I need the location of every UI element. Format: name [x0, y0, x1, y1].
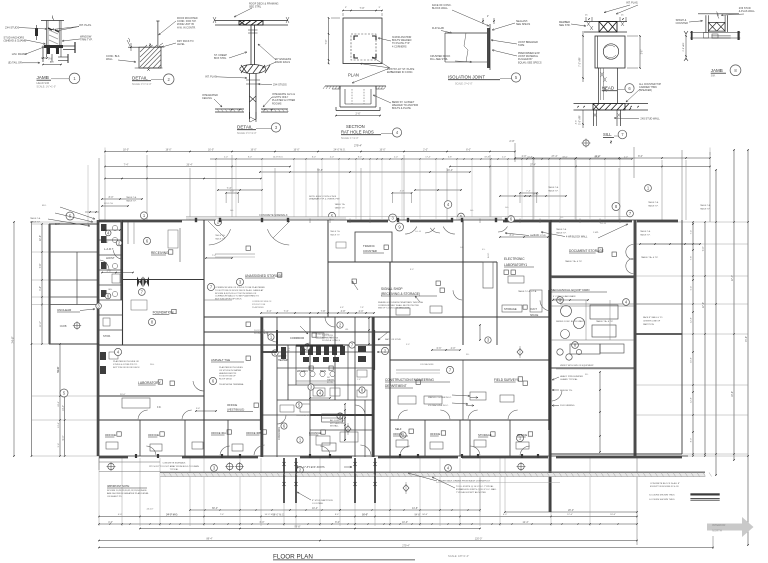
svg-text:7'-4": 7'-4"	[284, 310, 289, 313]
svg-text:89'-4": 89'-4"	[206, 538, 212, 541]
svg-text:OFFICE: OFFICE	[105, 433, 116, 437]
signal shop fixtures	[396, 308, 410, 315]
svg-text:18'-8": 18'-8"	[484, 157, 490, 159]
svg-text:TABLE T.A.: TABLE T.A.	[330, 230, 341, 233]
svg-text:PLASTERED: PLASTERED	[252, 306, 264, 309]
svg-text:ROOMS: ROOMS	[272, 102, 282, 105]
svg-text:4 HR BLOCK WALL: 4 HR BLOCK WALL	[566, 236, 588, 239]
svg-text:6'-6": 6'-6"	[437, 347, 442, 350]
svg-text:SERIES CONC. BLOCK WALLS: SERIES CONC. BLOCK WALLS	[556, 320, 586, 323]
office desks right row	[396, 440, 408, 447]
svg-text:TABLE T.A. & T.P.: TABLE T.A. & T.P.	[565, 260, 583, 263]
svg-text:H.M. FRAME: H.M. FRAME	[12, 52, 28, 56]
svg-text:TABLE T.C.A. & T.A.: TABLE T.C.A. & T.A.	[518, 290, 537, 293]
svg-text:18'-0": 18'-0"	[562, 157, 568, 159]
svg-text:TYPICAL: TYPICAL	[170, 468, 180, 471]
svg-text:6'-8": 6'-8"	[340, 307, 344, 309]
svg-text:16'-0": 16'-0"	[250, 149, 256, 152]
svg-text:SEE SPECS: SEE SPECS	[516, 23, 531, 26]
svg-text:8'-0": 8'-0"	[312, 157, 316, 159]
svg-text:8-COURS SHOWN THUS: 8-COURS SHOWN THUS	[649, 495, 675, 497]
svg-text:94'-8": 94'-8"	[414, 514, 420, 517]
foundation room marks	[131, 300, 147, 310]
svg-text:CORRIDOR SIDE OF: CORRIDOR SIDE OF	[252, 301, 272, 303]
svg-text:PARTITION: PARTITION	[643, 323, 654, 326]
svg-text:FILL-SEE STRL: FILL-SEE STRL	[430, 58, 449, 61]
svg-text:74'-8": 74'-8"	[745, 336, 748, 342]
svg-text:HEATER: HEATER	[278, 359, 288, 362]
svg-text:ROOMS B,R,25,26 & 27 BOTH SIDE: ROOMS B,R,25,26 & 27 BOTH SIDES OF	[215, 293, 257, 295]
yard inner wall y=334	[634, 333, 682, 335]
misc interior door tags	[246, 246, 250, 250]
core sinks	[300, 371, 305, 376]
svg-text:EQUAL-SEE SPECS: EQUAL-SEE SPECS	[518, 61, 542, 64]
svg-text:16'-0": 16'-0"	[379, 149, 385, 152]
svg-text:HEAD SIM: HEAD SIM	[37, 81, 50, 85]
right dimension column 5	[747, 150, 749, 545]
svg-text:STORAGE: STORAGE	[478, 433, 492, 437]
svg-text:SIGNAL SHOP: SIGNAL SHOP	[381, 287, 403, 291]
svg-text:UNCLEAR: UNCLEAR	[57, 308, 72, 312]
svg-text:MEN: MEN	[320, 369, 326, 373]
svg-text:SECTION: SECTION	[346, 124, 365, 129]
svg-text:5'-0": 5'-0"	[289, 347, 291, 351]
svg-text:16'-0" M.O.: 16'-0" M.O.	[265, 514, 276, 516]
svg-text:WOMEN: WOMEN	[297, 369, 308, 373]
grid bubble 7	[627, 210, 634, 217]
svg-text:TABLE T.P.: TABLE T.P.	[648, 204, 659, 207]
svg-text:ASPHALT TILE: ASPHALT TILE	[211, 358, 230, 362]
svg-text:98'-8": 98'-8"	[294, 526, 300, 529]
svg-text:DETAIL: DETAIL	[132, 76, 148, 81]
corridor wall y=345	[99, 344, 390, 346]
svg-text:UNDER WALK DRAINS FROM EACH DO: UNDER WALK DRAINS FROM EACH DOWNSPOUT	[438, 480, 491, 483]
left dimension column lower	[59, 344, 61, 456]
interior wall x=463	[462, 220, 464, 345]
door arcs right rooms	[540, 300, 550, 311]
entrance double door arcs top	[209, 229, 231, 245]
core vertical dim	[344, 404, 346, 440]
svg-text:27'-8": 27'-8"	[702, 302, 705, 308]
svg-text:18'-0": 18'-0"	[165, 149, 171, 152]
svg-text:ROUND WALLS: ROUND WALLS	[254, 332, 269, 335]
kitchen counter rects	[322, 414, 343, 422]
svg-text:MECHANICAL EQUIP YARD: MECHANICAL EQUIP YARD	[551, 288, 590, 292]
left room fixtures	[101, 224, 107, 231]
svg-text:CORRIDOR THEY SHALL BE PROTECT: CORRIDOR THEY SHALL BE PROTECTED	[378, 304, 420, 307]
svg-text:8'-0": 8'-0"	[410, 269, 414, 271]
svg-text:STUDS TO BE: STUDS TO BE	[252, 304, 266, 306]
sidewalk band above top wall	[186, 216, 632, 218]
svg-text:10'-8": 10'-8"	[594, 157, 600, 159]
svg-text:16'-4": 16'-4"	[447, 169, 453, 172]
svg-text:2X4 FURRING: 2X4 FURRING	[560, 405, 575, 407]
svg-text:22'-8": 22'-8"	[39, 235, 42, 241]
svg-text:CORRIDOR: CORRIDOR	[290, 336, 304, 340]
expansion joint bars	[283, 458, 285, 503]
right dimension column 3	[715, 170, 717, 475]
svg-text:TABLE T.A.: TABLE T.A.	[548, 186, 559, 189]
svg-text:(VESTIBULE): (VESTIBULE)	[227, 408, 244, 412]
mech yard equipment	[561, 306, 572, 317]
svg-text:G.L.: G.L.	[560, 217, 564, 219]
svg-text:WATER: WATER	[278, 355, 287, 358]
svg-text:(3)HEAD & 3)JAMB: (3)HEAD & 3)JAMB	[4, 39, 27, 43]
svg-text:10'-8": 10'-8"	[527, 157, 533, 159]
svg-text:SCALE: 1½"=1'-0": SCALE: 1½"=1'-0"	[237, 131, 257, 135]
svg-text:7'-4": 7'-4"	[227, 187, 232, 190]
svg-text:8'-4": 8'-4"	[335, 514, 340, 516]
svg-text:18'-8": 18'-8"	[610, 514, 616, 516]
svg-text:OF STUDS IN WATER: OF STUDS IN WATER	[219, 369, 242, 372]
svg-text:UNASSIGNED STORAGE: UNASSIGNED STORAGE	[245, 274, 283, 278]
top dimension dense row	[210, 158, 632, 160]
detail 3 wall section at roof deck	[213, 17, 289, 122]
svg-text:SCALE: 1½"=1'-0": SCALE: 1½"=1'-0"	[37, 85, 57, 89]
svg-text:FLOOR PLAN: FLOOR PLAN	[273, 553, 313, 560]
svg-text:9'-6": 9'-6"	[196, 408, 200, 410]
svg-text:7'-4": 7'-4"	[691, 230, 693, 235]
svg-text:WHERE GI LOUVERS PENETRATE THR: WHERE GI LOUVERS PENETRATE THROUGH	[378, 301, 423, 304]
svg-text:SEE STR.: SEE STR.	[559, 24, 571, 27]
svg-text:PLAN: PLAN	[348, 73, 359, 78]
svg-text:8'-0": 8'-0"	[358, 157, 362, 159]
svg-text:FLR SLAB: FLR SLAB	[432, 27, 444, 30]
sidewalk lines bottom	[99, 471, 705, 473]
detail 5 isolation joint drawing	[445, 15, 495, 70]
construction dept tables	[398, 396, 416, 404]
svg-text:M.O.: M.O.	[42, 205, 47, 207]
grid bubble 2	[214, 218, 221, 225]
svg-text:7'-8": 7'-8"	[321, 310, 326, 313]
left dimension column wing	[41, 224, 43, 344]
svg-text:94'-8": 94'-8"	[422, 514, 428, 516]
receiving-foundation wall y=279	[123, 279, 205, 281]
svg-text:PITCH 1/2" TO FOOT AWAY FROM B: PITCH 1/2" TO FOOT AWAY FROM BLDG TO DRA…	[149, 465, 199, 468]
svg-text:SCALE: 3"=1'-0": SCALE: 3"=1'-0"	[455, 83, 473, 86]
left small rooms dividers	[99, 239, 123, 241]
svg-text:WALL: WALL	[106, 58, 113, 61]
mirror lines women	[296, 380, 335, 382]
yard bottom wall	[551, 453, 682, 455]
north arrow gray	[707, 517, 754, 537]
left exterior wall	[98, 220, 100, 456]
svg-text:TABLE T.P.: TABLE T.P.	[126, 199, 137, 202]
svg-text:279'-4": 279'-4"	[354, 144, 362, 148]
detail 2 concrete wall section	[127, 21, 163, 71]
top dimension row A	[105, 151, 515, 153]
grid bubble 4	[444, 201, 452, 209]
svg-text:8'-0": 8'-0"	[638, 155, 643, 158]
door arcs offices right	[398, 410, 408, 419]
unassigned storage marks	[215, 253, 255, 255]
svg-text:2'-0": 2'-0"	[423, 149, 428, 152]
svg-text:TABLE T.A.: TABLE T.A.	[700, 204, 711, 207]
svg-text:OFFICE: OFFICE	[393, 432, 403, 436]
core east wall x=374	[373, 317, 375, 457]
svg-text:TAPE: TAPE	[518, 44, 525, 47]
svg-text:TABLE T.P.: TABLE T.P.	[700, 207, 711, 210]
svg-text:26'-4": 26'-4"	[186, 164, 192, 167]
svg-text:MOUSE T.N.: MOUSE T.N.	[560, 390, 573, 392]
svg-text:18'-0": 18'-0"	[123, 149, 129, 152]
svg-text:TABLE T.A. & T.P.: TABLE T.A. & T.P.	[596, 320, 614, 323]
svg-text:MOLD T.A.: MOLD T.A.	[104, 202, 114, 205]
field surveys desks	[470, 392, 486, 400]
svg-text:7'-8": 7'-8"	[39, 263, 42, 268]
svg-text:G.L.-B: G.L.-B	[600, 223, 606, 225]
svg-text:SELF: SELF	[395, 427, 402, 431]
electronic lab fixtures	[508, 276, 524, 283]
grid bubble 6	[508, 216, 515, 223]
right dimension column 1	[692, 222, 694, 456]
detail 4 title SECTION RAT HOLE PADS with bubble 4	[341, 124, 402, 140]
svg-text:RECEIVING: RECEIVING	[151, 251, 169, 255]
svg-text:INT. PLAS.: INT. PLAS.	[626, 2, 639, 5]
svg-text:2'-6": 2'-6"	[356, 112, 361, 115]
benchmark symbols	[108, 463, 114, 469]
svg-text:LEVEL: LEVEL	[177, 43, 185, 46]
svg-text:19'-8": 19'-8"	[731, 391, 734, 397]
bracket dims above wall	[226, 192, 238, 194]
svg-text:2'-0": 2'-0"	[394, 157, 398, 159]
svg-text:27'-4": 27'-4"	[551, 155, 557, 158]
svg-text:CONCRETE SIDEWALK: CONCRETE SIDEWALK	[259, 213, 288, 217]
svg-text:20'-0": 20'-0"	[120, 394, 126, 396]
svg-text:9'-4": 9'-4"	[62, 435, 65, 440]
svg-text:TOOL JOINTS @ 10'-0"O.C. TYPIC: TOOL JOINTS @ 10'-0"O.C. TYPICAL	[456, 485, 494, 488]
svg-text:2'-0": 2'-0"	[509, 139, 514, 143]
office desks left row	[106, 442, 118, 449]
svg-text:14'-8" M.O.: 14'-8" M.O.	[273, 157, 284, 159]
svg-text:JAMB: JAMB	[711, 68, 723, 73]
svg-text:2": 2"	[487, 15, 489, 18]
svg-text:COUNTER: COUNTER	[363, 249, 377, 253]
office dividers left	[139, 420, 141, 456]
svg-text:& PLAS WALL: & PLAS WALL	[739, 10, 756, 13]
bottom wall door arcs extra	[146, 446, 156, 455]
door arcs top right	[425, 228, 435, 233]
svg-text:8'-0": 8'-0"	[466, 149, 471, 152]
mech yard wall y=368	[551, 367, 634, 369]
svg-text:CONCRETE SIDEWALK: CONCRETE SIDEWALK	[163, 462, 187, 465]
svg-text:5'-4": 5'-4"	[58, 443, 60, 448]
svg-text:LIN.: LIN.	[345, 329, 349, 331]
svg-text:120'-0": 120'-0"	[475, 538, 483, 541]
svg-text:TYPICAL EXCEPT AS NOTED: TYPICAL EXCEPT AS NOTED	[456, 491, 486, 494]
diamond symbols	[403, 485, 409, 492]
svg-text:SPACE: SPACE	[530, 314, 539, 317]
svg-text:279'-4": 279'-4"	[402, 545, 410, 548]
corridor top wall y=317	[204, 316, 551, 318]
svg-text:1 HPL: 1 HPL	[593, 232, 600, 234]
svg-text:STORAGE: STORAGE	[504, 307, 517, 311]
svg-text:6'-0": 6'-0"	[503, 514, 508, 516]
svg-text:ELECTRONIC: ELECTRONIC	[504, 257, 525, 261]
detail reference circles	[66, 212, 74, 220]
detail 1 leader labels	[4, 23, 93, 65]
svg-text:SEE STRL: SEE STRL	[249, 6, 262, 9]
bottom extension lines	[98, 458, 100, 526]
svg-text:PLASTER BOTH SIDES: PLASTER BOTH SIDES	[219, 366, 243, 369]
svg-text:2X6 STUD WALL: 2X6 STUD WALL	[640, 118, 660, 121]
svg-text:CORRIDOR: CORRIDOR	[278, 427, 281, 440]
grid bubble 5	[458, 213, 465, 220]
interior wall x=551 block wall	[550, 220, 552, 512]
svg-text:44'-8": 44'-8"	[412, 507, 418, 510]
svg-text:OFFICE: OFFICE	[148, 433, 159, 437]
svg-text:OFFICE 30B: OFFICE 30B	[246, 431, 261, 435]
svg-text:DETAIL: DETAIL	[237, 125, 253, 130]
svg-text:3'-8": 3'-8"	[341, 310, 346, 313]
svg-text:17'-4": 17'-4"	[532, 193, 538, 196]
yard interior dim column	[599, 372, 601, 452]
svg-text:(E) TAIL OR.: (E) TAIL OR.	[8, 61, 23, 65]
svg-text:HAND RAILS: HAND RAILS	[275, 61, 290, 64]
svg-text:2X4 STUDS: 2X4 STUDS	[5, 25, 19, 29]
svg-text:8'-0": 8'-0"	[248, 157, 252, 159]
svg-text:H.W. IN CONTR.: H.W. IN CONTR.	[177, 26, 196, 29]
svg-text:CURB: CURB	[60, 325, 67, 328]
svg-text:N.I.C.: N.I.C.	[488, 252, 490, 258]
svg-text:7'-4": 7'-4"	[212, 255, 216, 257]
traffic counter room	[355, 232, 392, 262]
top dimension row mid	[260, 171, 470, 173]
door arcs core	[267, 332, 277, 342]
svg-text:16'-0": 16'-0"	[362, 514, 368, 516]
svg-text:TABLE T.A.: TABLE T.A.	[215, 234, 226, 237]
svg-text:BLOCK WALL: BLOCK WALL	[432, 7, 448, 10]
core wall hatch segments	[276, 330, 278, 352]
svg-text:BOTTOM OF ROOF DECK: BOTTOM OF ROOF DECK	[215, 299, 242, 301]
svg-text:8'-0": 8'-0"	[335, 521, 340, 524]
core corridor wall x=277	[276, 317, 278, 457]
svg-text:OFFICE: OFFICE	[227, 403, 237, 407]
toilet fixtures dark	[281, 346, 366, 362]
sidewalk hatch ticks	[163, 473, 166, 477]
detail 7 title SILL with bubble 7	[603, 130, 627, 144]
svg-text:PLASTER BOTH SIDE OF: PLASTER BOTH SIDE OF	[113, 360, 140, 363]
svg-text:7'-8": 7'-8"	[360, 307, 364, 309]
svg-text:EXP.: EXP.	[55, 223, 60, 226]
svg-text:EXPANSION JOINTS @ 20'-0"O.C.: EXPANSION JOINTS @ 20'-0"O.C. MAX.	[456, 488, 497, 491]
door arcs offices left	[138, 410, 148, 419]
svg-text:24'-4": 24'-4"	[58, 401, 60, 407]
svg-text:TRAFFIC: TRAFFIC	[363, 244, 375, 248]
svg-text:INT. PLAS.: INT. PLAS.	[205, 76, 218, 79]
svg-text:DRAWBAR TYP. & OVERR. PNT: DRAWBAR TYP. & OVERR. PNT	[309, 198, 340, 201]
svg-text:JCE MACHINE: JCE MACHINE	[420, 363, 434, 366]
svg-text:SCALE: 1"=1'-0": SCALE: 1"=1'-0"	[341, 137, 359, 140]
svg-text:TABLE T.P.: TABLE T.P.	[556, 231, 567, 234]
signal shop wall y=262	[328, 261, 497, 263]
svg-text:3'-4": 3'-4"	[267, 310, 272, 313]
svg-text:7'-0": 7'-0"	[325, 39, 328, 44]
svg-text:ROUND A 1 WALLS: ROUND A 1 WALLS	[322, 339, 341, 342]
svg-text:3½": 3½"	[48, 57, 53, 61]
svg-text:ROOMS 10,28,29,30,31,32,33,34,: ROOMS 10,28,29,30,31,32,33,34,35&36	[107, 490, 147, 492]
grid bubble 8	[612, 203, 620, 211]
svg-text:ALL ELECTRIC: ALL ELECTRIC	[330, 419, 346, 422]
svg-text:CENTER LINE OF: CENTER LINE OF	[643, 320, 661, 322]
top dimension row B	[105, 166, 290, 168]
svg-text:HEAD: HEAD	[602, 86, 614, 91]
svg-text:NOTE: ELEV. COICN & THIS: NOTE: ELEV. COICN & THIS	[309, 196, 337, 198]
svg-text:4' CONC SLAB DRAIN: 4' CONC SLAB DRAIN	[553, 295, 576, 298]
interior wall x=204	[203, 220, 205, 456]
svg-text:TABLE T.A.: TABLE T.A.	[556, 228, 567, 231]
detail 2 leader labels	[106, 17, 198, 63]
office row wall y=420 right	[390, 419, 551, 421]
svg-text:BOTTOM OF ROOF DECK: BOTTOM OF ROOF DECK	[113, 367, 140, 369]
bottom dimension row 4	[140, 528, 480, 530]
svg-text:COUNTER: COUNTER	[676, 22, 689, 25]
svg-text:C-3 STRBL: C-3 STRBL	[312, 503, 324, 505]
small dimension marks inside	[500, 236, 548, 238]
svg-text:2'-0": 2'-0"	[624, 157, 628, 159]
svg-text:0.5.: 0.5.	[482, 249, 486, 251]
svg-text:7'-0": 7'-0"	[360, 7, 365, 10]
svg-text:G.L.-B: G.L.-B	[415, 231, 421, 233]
svg-text:OFFICE 30A: OFFICE 30A	[211, 431, 226, 435]
svg-text:NORTH: NORTH	[712, 529, 722, 533]
svg-text:G.L.: G.L.	[460, 247, 464, 249]
svg-text:DUCT: DUCT	[530, 308, 537, 311]
svg-text:4'-0": 4'-0"	[118, 514, 123, 516]
svg-text:TABLE T.P.: TABLE T.P.	[30, 220, 41, 223]
svg-text:FACE OF STUD: FACE OF STUD	[385, 338, 401, 341]
left extension lines	[32, 223, 50, 225]
right wall tick pairs	[692, 223, 694, 225]
svg-text:TRIM TYP.: TRIM TYP.	[80, 38, 93, 42]
detail 1 JAMB drawing	[35, 16, 75, 66]
svg-text:INTERIOR: INTERIOR	[712, 523, 725, 527]
detail 6 title HEAD with bubble 6	[602, 83, 662, 102]
svg-text:4'-0": 4'-0"	[451, 347, 456, 350]
svg-text:TABLE T.A.: TABLE T.A.	[30, 217, 41, 220]
receiving interior marks	[179, 228, 181, 262]
core walls horizontal	[261, 351, 374, 353]
window sill marks top wall	[309, 219, 311, 224]
svg-text:4'-0": 4'-0"	[400, 191, 405, 193]
svg-text:FACE 8" WALL & TO: FACE 8" WALL & TO	[643, 316, 663, 319]
svg-text:4 CORNERS: 4 CORNERS	[392, 45, 407, 48]
svg-text:FIELD SURVEYS: FIELD SURVEYS	[494, 378, 519, 382]
svg-text:28'-0": 28'-0"	[568, 509, 574, 512]
detail 4 plan view of pad	[325, 7, 383, 78]
svg-text:12'-4": 12'-4"	[522, 521, 528, 524]
svg-text:3": 3"	[345, 7, 347, 9]
interior wall x=497	[496, 262, 498, 345]
svg-text:CORRIDOR SIDE OF STUDS TO BE P: CORRIDOR SIDE OF STUDS TO BE PLASTERED	[215, 286, 265, 289]
right extension lines	[636, 221, 748, 223]
svg-text:8" STUD PARTITION: 8" STUD PARTITION	[312, 499, 333, 502]
svg-text:EMBEDDED IN CONC.: EMBEDDED IN CONC.	[387, 71, 413, 74]
svg-text:7'-4": 7'-4"	[702, 246, 705, 251]
svg-text:CONSTRUCTION ENGINEERING: CONSTRUCTION ENGINEERING	[385, 378, 434, 382]
left stacked short dims	[102, 198, 142, 200]
svg-text:CORRIDOR WALLS TO BE PLASTERED: CORRIDOR WALLS TO BE PLASTERED TO	[215, 295, 259, 298]
detail 5 title ISOLATION JOINT with bubble 5	[448, 73, 521, 86]
svg-text:2X4 STUDS: 2X4 STUDS	[273, 84, 287, 87]
svg-text:STUDS & STOR.P31 TO: STUDS & STOR.P31 TO	[113, 364, 137, 366]
svg-text:16'-0": 16'-0"	[293, 149, 299, 152]
detail 4 leader labels	[352, 36, 418, 110]
svg-text:TABLE T.P.: TABLE T.P.	[215, 237, 225, 240]
svg-text:SILL: SILL	[603, 132, 612, 137]
detail 4 section view	[323, 86, 386, 116]
svg-text:TO GATE: TO GATE	[553, 298, 563, 301]
